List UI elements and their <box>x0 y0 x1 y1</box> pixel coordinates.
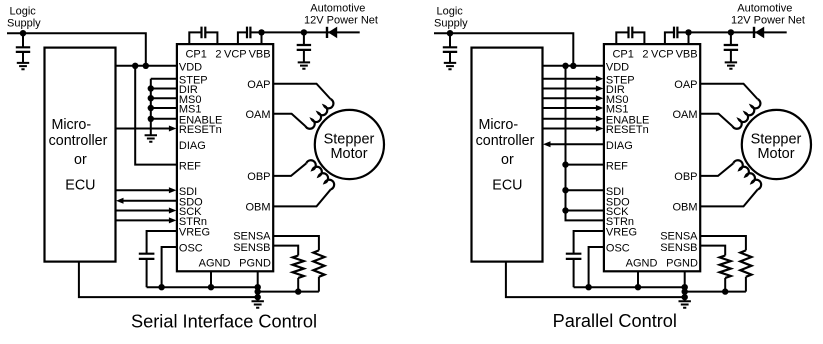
svg-text:SENSB: SENSB <box>660 242 697 254</box>
svg-text:OAM: OAM <box>672 109 697 121</box>
wire controller ground return (parallel) <box>506 262 685 298</box>
svg-text:CP1: CP1 <box>185 49 206 61</box>
svg-text:DIAG: DIAG <box>179 140 206 152</box>
wire VBB supply rail (parallel) <box>689 31 787 33</box>
svg-text:VREG: VREG <box>606 227 637 239</box>
svg-text:VBB: VBB <box>249 49 271 61</box>
inductor motor winding A (parallel) <box>733 99 761 129</box>
svg-text:REF: REF <box>179 160 201 172</box>
node VBB junction (parallel) <box>685 29 691 35</box>
svg-text:RESETn: RESETn <box>606 124 649 136</box>
pin labels left column (parallel) <box>606 62 649 255</box>
capacitor VCP reservoir (parallel) <box>674 27 677 39</box>
wire logic supply rail (parallel) <box>434 33 573 66</box>
wire OBP phase lead (parallel) <box>700 163 733 176</box>
node PGND/controller-ground junction (serial) <box>255 294 261 300</box>
svg-text:controller: controller <box>49 133 108 149</box>
svg-text:VREG: VREG <box>179 227 210 239</box>
svg-text:RESETn: RESETn <box>179 124 222 136</box>
wire sense ground rail (parallel) <box>685 291 746 293</box>
svg-text:or: or <box>501 152 514 168</box>
block microcontroller/ECU (parallel) <box>472 48 543 262</box>
svg-text:OAP: OAP <box>247 79 270 91</box>
wire sense B bottom lead (parallel) <box>724 278 726 292</box>
node SCK tie junction <box>562 207 568 213</box>
node logic supply junction (serial) <box>20 30 26 36</box>
svg-text:Logic: Logic <box>437 6 464 18</box>
svg-text:Stepper: Stepper <box>751 131 802 147</box>
wire analog ground rail (parallel) <box>574 286 685 288</box>
svg-text:ECU: ECU <box>492 178 522 194</box>
node MS1 strap junction <box>148 105 154 111</box>
svg-text:Motor: Motor <box>757 146 794 162</box>
wire SCK serial-clock <box>116 208 177 214</box>
node PGND/AGND junction (serial) <box>255 284 261 290</box>
svg-text:REF: REF <box>606 160 628 172</box>
wire CP1-CP2 bracket (parallel) <box>616 32 644 44</box>
wire STEP control (parallel) <box>543 76 604 82</box>
wire sense ground rail (serial) <box>258 291 319 293</box>
svg-text:Motor: Motor <box>330 146 367 162</box>
node VBB junction (serial) <box>258 29 264 35</box>
label title Parallel Control <box>553 311 677 331</box>
wire STRn strobe <box>116 217 177 223</box>
wire logic supply rail (serial) <box>7 33 146 66</box>
ground logic supply (serial) <box>17 63 29 69</box>
node PGND/controller-ground junction (parallel) <box>682 294 688 300</box>
node OSC ground junction (parallel) <box>585 284 591 290</box>
motor stepper motor symbol (parallel) <box>742 110 811 179</box>
wire MS1 control (parallel) <box>543 105 604 111</box>
ground VBB bulk cap (serial) <box>298 62 310 68</box>
wire MS0 control (parallel) <box>543 95 604 101</box>
node PGND/sense junction (parallel) <box>682 288 688 294</box>
wire sense B bottom lead (serial) <box>297 278 299 292</box>
wire SENSA lead (serial) <box>273 236 319 250</box>
wire sense A bottom lead (serial) <box>318 277 320 292</box>
svg-text:ECU: ECU <box>65 178 95 194</box>
svg-text:Micro-: Micro- <box>478 117 518 133</box>
net Automotive 12V Power Net label (parallel) <box>731 3 805 27</box>
op-amp driver IC A3986 body (serial) <box>177 44 273 271</box>
wire VBB bulk-cap lead (serial) <box>303 32 305 62</box>
net Automotive 12V Power Net label (serial) <box>304 3 378 27</box>
ground VBB bulk cap (parallel) <box>725 62 737 68</box>
pin labels right column (parallel) <box>660 79 698 254</box>
node REF tie junction <box>562 161 568 167</box>
inductor motor winding A (serial) <box>306 99 334 129</box>
svg-text:VCP: VCP <box>224 49 247 61</box>
svg-text:DIAG: DIAG <box>606 140 633 152</box>
svg-text:2: 2 <box>642 49 648 61</box>
svg-text:PGND: PGND <box>239 258 271 270</box>
node SDI tie junction <box>562 187 568 193</box>
svg-text:Supply: Supply <box>434 18 468 30</box>
op-amp driver IC A3986 body (parallel) <box>604 44 700 271</box>
node VBB bulk-cap junction (parallel) <box>728 29 734 35</box>
node MS0 strap junction <box>148 95 154 101</box>
wire RESETn control (parallel) <box>543 126 604 132</box>
svg-text:SENSB: SENSB <box>233 242 270 254</box>
wire OAP phase lead (serial) <box>273 84 330 99</box>
ground logic supply (parallel) <box>444 63 456 69</box>
capacitor VREG bypass (serial) <box>139 254 155 259</box>
wire AGND pin lead (parallel) <box>637 271 639 287</box>
capacitor charge pump CP (parallel) <box>629 27 633 39</box>
svg-text:PGND: PGND <box>666 258 698 270</box>
wire SENSB lead (parallel) <box>700 246 725 256</box>
wire PGND pin lead (serial) <box>257 271 259 301</box>
wire SENSA lead (parallel) <box>700 236 746 250</box>
wire STEP/DIR/MS0/MS1/ENABLE strap chain (serial) <box>151 79 177 136</box>
wire RESETn control (serial) <box>116 126 177 132</box>
svg-text:OSC: OSC <box>606 243 630 255</box>
node AGND junction (serial) <box>208 284 214 290</box>
wire VBB supply rail (serial) <box>262 31 360 33</box>
svg-text:OAP: OAP <box>674 79 697 91</box>
motor stepper motor symbol (serial) <box>315 110 384 179</box>
capacitor VBB bulk (serial) <box>297 45 311 50</box>
capacitor logic supply bypass C2a <box>443 47 457 52</box>
wire logic cap lead (serial) <box>22 33 24 63</box>
svg-text:controller: controller <box>476 133 535 149</box>
node AGND junction (parallel) <box>635 284 641 290</box>
svg-text:AGND: AGND <box>626 258 658 270</box>
pin labels top row CP1 2 VCP VBB (serial) <box>185 49 270 61</box>
svg-text:12V Power Net: 12V Power Net <box>731 15 805 27</box>
svg-text:Supply: Supply <box>7 18 41 30</box>
wire OBM phase lead (serial) <box>273 189 331 206</box>
net Logic Supply label (serial) <box>7 6 41 30</box>
wire OBM phase lead (parallel) <box>700 189 758 206</box>
svg-text:Automotive: Automotive <box>310 3 365 15</box>
ground logic-input strap <box>145 135 157 141</box>
node VDD supply-drop junction (serial) <box>143 63 149 69</box>
wire OSC lead (parallel) <box>589 247 604 287</box>
inductor motor winding B (parallel) <box>733 160 761 189</box>
svg-text:Parallel Control: Parallel Control <box>553 311 677 331</box>
ground star ground (serial) <box>252 301 264 307</box>
node PGND/AGND junction (parallel) <box>682 284 688 290</box>
node DIR strap junction <box>148 85 154 91</box>
wire VREG lead (parallel) <box>574 231 604 287</box>
svg-text:12V Power Net: 12V Power Net <box>304 15 378 27</box>
node VDD tie junction (parallel) <box>562 63 568 69</box>
label title Serial Interface Control <box>131 311 317 331</box>
wire VDD-to-REF/SDI/SCK/STRn tie (parallel) <box>566 66 604 221</box>
svg-text:OBM: OBM <box>245 202 270 214</box>
node VBB bulk-cap junction (serial) <box>301 29 307 35</box>
svg-text:2: 2 <box>215 49 221 61</box>
ground star ground (parallel) <box>679 301 691 307</box>
svg-text:Stepper: Stepper <box>324 131 375 147</box>
svg-text:VCP: VCP <box>651 49 674 61</box>
svg-text:OBM: OBM <box>672 202 697 214</box>
wire DIR control (parallel) <box>543 86 604 92</box>
wire logic cap lead (parallel) <box>449 33 451 63</box>
wire VREG lead (serial) <box>147 231 177 287</box>
svg-text:Serial Interface Control: Serial Interface Control <box>131 311 317 331</box>
wire SDI serial-data-in <box>116 187 177 193</box>
wire SDO serial-data-out <box>116 198 177 204</box>
node OSC ground junction (serial) <box>158 284 164 290</box>
diode reverse-battery (parallel) <box>754 27 764 39</box>
wire analog ground rail (serial) <box>147 286 258 288</box>
wire VBB bulk-cap lead (parallel) <box>730 32 732 62</box>
svg-text:Logic: Logic <box>10 6 37 18</box>
resistor sense B (parallel) <box>720 256 731 278</box>
pin labels left column (serial) <box>179 62 222 255</box>
net Logic Supply label (parallel) <box>434 6 468 30</box>
capacitor VCP reservoir (serial) <box>247 27 250 39</box>
svg-text:OSC: OSC <box>179 243 203 255</box>
inductor motor winding B (serial) <box>306 160 334 189</box>
svg-text:Micro-: Micro- <box>51 117 91 133</box>
pin labels bottom row AGND PGND (parallel) <box>626 258 698 270</box>
diode reverse-battery (serial) <box>327 27 337 39</box>
pin labels bottom row AGND PGND (serial) <box>199 258 271 270</box>
wire OAP phase lead (parallel) <box>700 84 757 99</box>
wire sense A bottom lead (parallel) <box>745 277 747 292</box>
svg-text:CP1: CP1 <box>612 49 633 61</box>
svg-text:AGND: AGND <box>199 258 231 270</box>
wire VDD supply (serial) <box>116 65 177 67</box>
wire SENSB lead (serial) <box>273 246 298 256</box>
wire OSC lead (serial) <box>162 247 177 287</box>
wire PGND pin lead (parallel) <box>684 271 686 301</box>
svg-text:OBP: OBP <box>674 171 697 183</box>
svg-text:Automotive: Automotive <box>737 3 792 15</box>
svg-text:OAM: OAM <box>245 109 270 121</box>
node sense B ground junction (parallel) <box>722 288 728 294</box>
svg-text:or: or <box>74 152 87 168</box>
svg-text:SENSA: SENSA <box>233 231 271 243</box>
svg-text:VDD: VDD <box>179 62 202 74</box>
pin labels right column (serial) <box>233 79 271 254</box>
wire OBP phase lead (serial) <box>273 163 306 176</box>
resistor sense A (parallel) <box>740 250 751 276</box>
wire DIAG status (parallel) <box>543 141 604 147</box>
svg-text:OBP: OBP <box>247 171 270 183</box>
capacitor charge pump CP (serial) <box>202 27 206 39</box>
wire controller ground return (serial) <box>79 262 258 298</box>
svg-text:SENSA: SENSA <box>660 231 698 243</box>
wire OAM phase lead (parallel) <box>700 114 732 126</box>
wire VCP-VBB bracket (serial) <box>238 32 262 44</box>
wire ENABLE control (parallel) <box>543 116 604 122</box>
node logic supply junction (parallel) <box>447 30 453 36</box>
node ENABLE strap junction <box>148 116 154 122</box>
wire VCP-VBB bracket (parallel) <box>665 32 689 44</box>
svg-text:VDD: VDD <box>606 62 629 74</box>
resistor sense B (serial) <box>293 256 304 278</box>
svg-text:VBB: VBB <box>676 49 698 61</box>
capacitor VREG bypass (parallel) <box>566 254 582 259</box>
block microcontroller/ECU (serial) <box>45 48 116 262</box>
node VDD tie junction (serial) <box>132 63 138 69</box>
capacitor VBB bulk (parallel) <box>724 45 738 50</box>
wire AGND pin lead (serial) <box>210 271 212 287</box>
capacitor logic supply bypass C1a <box>16 47 30 52</box>
wire CP1-CP2 bracket (serial) <box>189 32 217 44</box>
wire OAM phase lead (serial) <box>273 114 305 126</box>
pin labels top row CP1 2 VCP VBB (parallel) <box>612 49 697 61</box>
wire VDD-to-REF tie (serial) <box>135 66 177 165</box>
node VDD supply-drop junction (parallel) <box>570 63 576 69</box>
resistor sense A (serial) <box>313 250 324 276</box>
node PGND/sense junction (serial) <box>255 288 261 294</box>
node sense B ground junction (serial) <box>295 288 301 294</box>
wire VDD supply (parallel) <box>543 65 604 67</box>
